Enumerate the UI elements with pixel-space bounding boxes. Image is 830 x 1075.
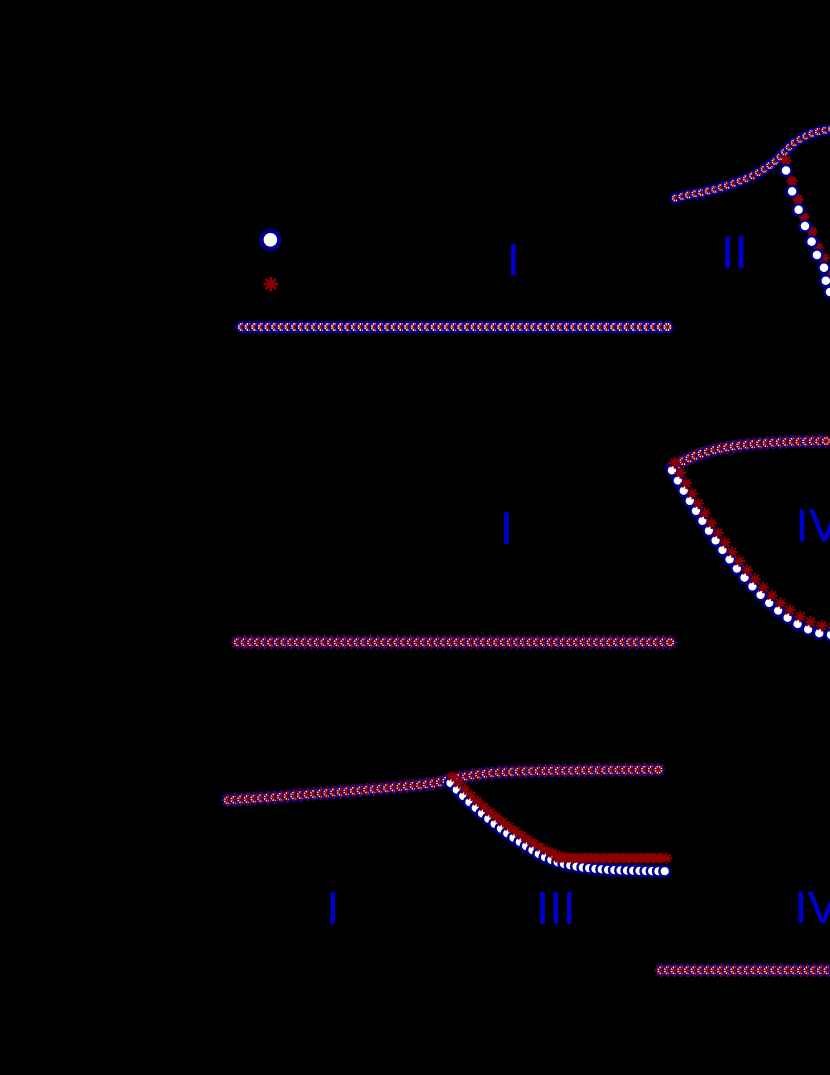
descending branch circles (panel 1) [781, 165, 830, 298]
svg-text:I: I [327, 883, 340, 934]
legend circle marker [261, 231, 279, 249]
marker chain IV (panel 3) [655, 964, 830, 978]
svg-text:I: I [500, 503, 513, 554]
lower branch stars (panel 2) [669, 457, 830, 633]
upper branch IV (panel 2) [665, 435, 830, 475]
dense asterisk band (panel 3) [551, 853, 666, 863]
svg-text:II: II [721, 227, 748, 278]
lower branch stars III (panel 3) [447, 771, 672, 864]
marker chain I (panel 1) [237, 322, 673, 332]
svg-text:I: I [507, 234, 520, 285]
svg-text:III: III [536, 883, 576, 934]
upper curve I/III boundary (panel 3) [221, 763, 665, 807]
svg-text:IV: IV [795, 882, 830, 933]
lower branch circles III (panel 3) [445, 778, 670, 877]
lower branch circles (panel 2) [667, 465, 830, 640]
marker chain I (panel 2) [231, 635, 678, 649]
legend asterisk marker [264, 277, 278, 291]
descending branch stars (panel 1) [781, 156, 830, 288]
rising marker curve II (panel 1) [671, 125, 830, 203]
svg-text:IV: IV [796, 500, 830, 551]
